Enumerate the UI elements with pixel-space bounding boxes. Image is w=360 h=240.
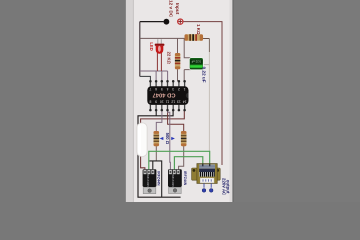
band right outer edge line — [232, 0, 233, 202]
svg-text:13: 13 — [177, 100, 181, 104]
resistor R2 22K vertical — [175, 53, 180, 69]
svg-text:8: 8 — [149, 100, 151, 104]
node: black junction dot — [164, 19, 170, 25]
transformer T1 — [192, 164, 221, 193]
svg-text:2: 2 — [178, 87, 180, 91]
top pin stubs — [203, 164, 210, 167]
wire: purple jog IC pin to left 500R resistor — [156, 110, 162, 131]
svg-text:4: 4 — [166, 87, 168, 91]
svg-text:IRFZ44N: IRFZ44N — [171, 175, 175, 187]
band left outer edge line — [125, 0, 126, 202]
label 500 Ω with arrows — [161, 133, 174, 145]
svg-text:0.22 uF: 0.22 uF — [201, 67, 206, 83]
navy band with laminations — [199, 169, 215, 172]
wire: maroon +12V feed to transformer — [183, 22, 222, 165]
LED D1 — [155, 39, 165, 54]
left mounting ear — [192, 168, 198, 180]
wire: left vertical bus from top corner down — [139, 22, 141, 77]
band left shaded strip — [126, 0, 134, 202]
resistor R3 500 ohm left — [154, 131, 160, 146]
IC notch right — [186, 93, 189, 98]
wire: black branch to IC pin 7 top — [140, 76, 151, 81]
wire: right 500R bottom lead to right FET source — [179, 146, 184, 170]
left gray pillar bar — [0, 0, 125, 202]
terminal blue dot right — [209, 189, 213, 193]
svg-text:0.22 uF: 0.22 uF — [191, 60, 201, 64]
wire: green drain rail 1 left FET to transformer — [149, 151, 210, 169]
IC U1 CD4047 — [147, 80, 188, 111]
wire: black negative lead top — [140, 21, 164, 23]
IC top pins — [150, 81, 184, 86]
svg-text:LED: LED — [149, 42, 154, 50]
svg-text:12 v DC: 12 v DC — [169, 0, 174, 18]
transistor Q1 IRFZ44N left MOSFET — [143, 169, 157, 193]
svg-text:22 KΩ: 22 KΩ — [166, 52, 171, 65]
wire: +12V rail y=38.4 — [140, 37, 185, 39]
wire: LED legs — [157, 53, 161, 72]
video band background — [125, 0, 234, 202]
label Input 12 v DC — [169, 0, 180, 18]
wire: purple rail y=71 with pin drops — [140, 71, 168, 81]
wire: green drain rail 2 right FET to transformer — [174, 157, 202, 170]
svg-text:6: 6 — [155, 87, 157, 91]
wire: vertical lead 1K to cap to IC pin 1 — [184, 38, 190, 80]
wire: maroon run IC pin 8 to left FET gate — [141, 110, 185, 170]
bobbin core — [197, 164, 217, 184]
wire: maroon jog IC pin to right 500R resistor — [168, 110, 184, 131]
winding top stripes — [199, 164, 215, 168]
IC body — [147, 86, 188, 105]
wire: purple run IC pin to right FET gate — [168, 110, 171, 170]
wire: black stub IC pin 9 to ground run — [155, 110, 157, 116]
wire: 22K top and bottom leads — [177, 38, 179, 81]
wire: left 500R bottom lead to FET source junction — [155, 146, 157, 161]
wire: black ground run from IC pin area down left side and bottom rail — [138, 110, 181, 197]
capacitor C1 0.22uF green box — [189, 58, 203, 70]
resistor R1 1K horizontal — [185, 34, 204, 41]
wire: black source/ground link between FETs — [149, 161, 161, 197]
svg-text:IRFZ44N: IRFZ44N — [146, 175, 150, 187]
IC bottom pins — [150, 105, 184, 110]
svg-text:220v AC: 220v AC — [221, 178, 226, 196]
svg-text:1 KΩ: 1 KΩ — [196, 24, 201, 35]
node: red plus terminal — [178, 19, 183, 24]
svg-text:7: 7 — [149, 87, 151, 91]
wire: long gray drop from 1K down to green rail 2 — [208, 39, 210, 53]
IC pin numbers top row — [149, 87, 185, 91]
IC pin numbers bottom row — [149, 100, 186, 104]
svg-text:IRFZ44N: IRFZ44N — [156, 171, 160, 186]
label output 220v AC — [221, 178, 230, 196]
svg-text:3: 3 — [172, 87, 174, 91]
white label plate — [200, 178, 214, 183]
svg-text:11: 11 — [166, 100, 170, 104]
svg-text:10: 10 — [160, 100, 164, 104]
resistor R4 500 ohm right — [181, 131, 187, 146]
wire: cap right faint stub — [203, 64, 209, 66]
right gray pillar bar — [233, 0, 360, 202]
transistor Q2 IRFZ44N right MOSFET — [168, 169, 182, 193]
svg-text:14: 14 — [183, 100, 187, 104]
capacitor C2 white electrolytic — [137, 123, 147, 157]
wire: 1K right lead — [203, 38, 209, 40]
svg-text:IRFZ44N: IRFZ44N — [183, 171, 187, 186]
svg-text:5: 5 — [161, 87, 163, 91]
svg-text:1: 1 — [184, 87, 186, 91]
band right shaded strip — [230, 0, 233, 202]
svg-text:500 Ω: 500 Ω — [165, 133, 170, 145]
terminal blue dot left — [202, 189, 206, 193]
band left inner edge line — [132, 0, 135, 202]
svg-text:CD 4047: CD 4047 — [153, 92, 176, 98]
right mounting ear — [214, 168, 221, 180]
svg-text:9: 9 — [155, 100, 157, 104]
terminal stems — [204, 183, 211, 187]
svg-text:12: 12 — [171, 100, 175, 104]
svg-text:Input: Input — [175, 3, 180, 15]
